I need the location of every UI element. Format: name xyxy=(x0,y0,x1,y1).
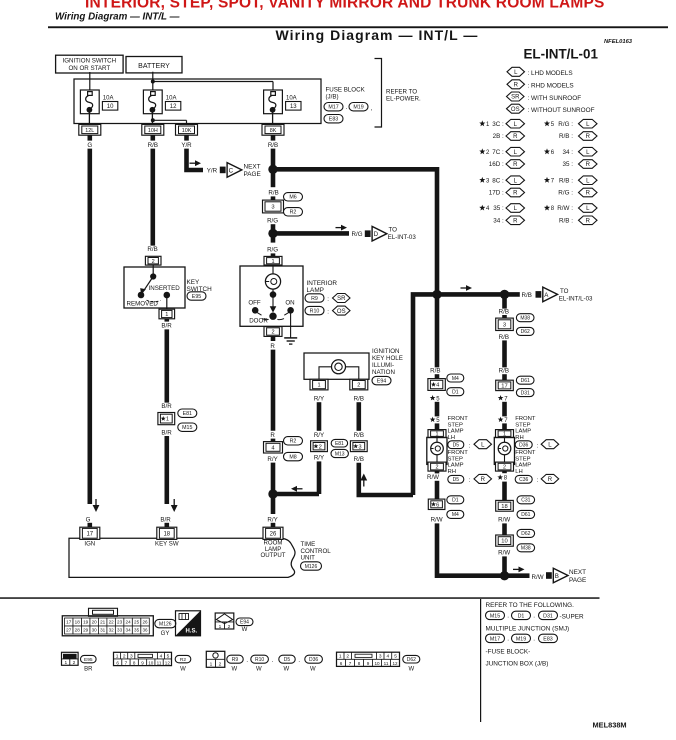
connector ref M8 xyxy=(284,452,303,460)
connector ref R10 with OS xyxy=(305,306,324,314)
wire fuse 10 to 12L xyxy=(88,110,90,125)
junction battery branch xyxy=(151,80,155,84)
svg-text:8: 8 xyxy=(358,661,361,666)
svg-text:2: 2 xyxy=(73,660,76,666)
front step lamp LH box xyxy=(427,437,447,464)
svg-text:10: 10 xyxy=(107,104,114,110)
svg-text:W: W xyxy=(242,626,248,633)
svg-text:R/Y: R/Y xyxy=(267,517,277,524)
svg-text:3: 3 xyxy=(379,654,382,660)
interior lamp box xyxy=(240,266,303,326)
connector face R9 xyxy=(206,651,225,667)
svg-text:D: D xyxy=(374,231,379,238)
svg-text:NFEL0163: NFEL0163 xyxy=(604,39,633,45)
fuse 10A no.10 xyxy=(80,90,99,114)
svg-text:30: 30 xyxy=(92,628,98,633)
wire lamp to switch common xyxy=(272,289,274,293)
svg-text:10A: 10A xyxy=(286,95,297,101)
connector star6 xyxy=(428,499,445,509)
svg-text:2: 2 xyxy=(357,383,360,389)
connector 10 (D62/M38) xyxy=(496,535,514,546)
connector ref R9 with SR xyxy=(305,294,324,302)
junction R/Y xyxy=(268,489,277,498)
wire R/G into interior lamp xyxy=(271,253,276,257)
svg-text:6: 6 xyxy=(436,502,439,508)
svg-text:NEXT: NEXT xyxy=(569,569,586,576)
svg-text:1: 1 xyxy=(64,660,67,666)
connector ref M126 xyxy=(301,562,322,570)
svg-text:UNIT: UNIT xyxy=(301,554,316,561)
svg-text:B/R: B/R xyxy=(161,429,172,436)
M126 cavity 22 xyxy=(107,618,115,626)
svg-text:W: W xyxy=(284,666,290,672)
svg-text:STEP: STEP xyxy=(448,456,463,462)
wire R/W run to star6 xyxy=(435,481,440,500)
svg-text:35: 35 xyxy=(134,628,140,633)
fuse block outline xyxy=(74,79,321,124)
svg-text:18: 18 xyxy=(501,504,507,510)
svg-text:R/Y: R/Y xyxy=(267,456,277,463)
svg-text:R/Y: R/Y xyxy=(314,432,324,439)
svg-text:D1: D1 xyxy=(518,613,525,619)
svg-text:.: . xyxy=(507,636,509,643)
svg-text:7C :: 7C : xyxy=(492,149,504,156)
svg-text:W: W xyxy=(256,666,262,672)
svg-text:31: 31 xyxy=(100,628,106,633)
svg-text:W: W xyxy=(408,666,414,672)
wire stub below step lamp LH xyxy=(435,471,440,473)
M126 cavity 19 xyxy=(81,618,89,626)
svg-text:1: 1 xyxy=(339,654,342,660)
svg-text:R/B :: R/B : xyxy=(559,177,573,184)
svg-text:JUNCTION BOX (J/B): JUNCTION BOX (J/B) xyxy=(486,661,549,668)
wire G stub into pin 17 xyxy=(88,523,93,527)
wire stub into connector 17 xyxy=(502,374,507,381)
svg-text:SR: SR xyxy=(511,95,520,101)
svg-text:TO: TO xyxy=(560,288,569,295)
svg-text:FUSE BLOCK: FUSE BLOCK xyxy=(326,87,366,94)
connector 3 (M38/D62) xyxy=(496,318,514,330)
svg-text:R/B: R/B xyxy=(268,190,278,197)
svg-text:D36: D36 xyxy=(519,443,528,449)
wire stub below 10K xyxy=(184,135,189,140)
svg-text:R: R xyxy=(513,218,518,224)
svg-text:R: R xyxy=(513,191,518,197)
legend with sunroof xyxy=(507,92,525,101)
connector ref M126 oval xyxy=(155,619,176,627)
key hole illumination pin 1 xyxy=(310,379,328,390)
junction right rail xyxy=(500,290,509,299)
svg-text:R/B: R/B xyxy=(147,246,157,253)
legend row star7 R/B/R/G xyxy=(544,177,550,183)
fuse 10A no.12 xyxy=(143,90,162,114)
wire B/R run to star1 xyxy=(165,329,170,402)
J/B terminal 10H xyxy=(142,124,164,135)
svg-text:LAMP: LAMP xyxy=(515,429,531,435)
svg-text:16D :: 16D : xyxy=(489,161,504,168)
wire R/Y run to junction xyxy=(271,463,276,514)
connector ref D31 xyxy=(516,389,534,397)
key hole illumination box xyxy=(304,353,369,379)
svg-text:STEP: STEP xyxy=(515,456,530,462)
harness side view logo H.S. xyxy=(176,611,201,636)
svg-text:OFF: OFF xyxy=(248,300,261,307)
svg-text:RH: RH xyxy=(448,469,457,475)
svg-text:R: R xyxy=(514,82,519,88)
svg-text:M38: M38 xyxy=(521,546,531,552)
footnote J/B ovals xyxy=(486,634,505,642)
M126 cavity 17 xyxy=(65,618,73,626)
svg-text:10: 10 xyxy=(148,660,154,665)
M126 cavity 18 xyxy=(73,618,81,626)
wire run to connector 10 xyxy=(502,523,507,535)
svg-text:R/B: R/B xyxy=(268,142,278,149)
svg-text:C36: C36 xyxy=(519,477,528,483)
svg-text:H.S.: H.S. xyxy=(185,628,197,634)
key switch pin 2 xyxy=(145,256,161,265)
legend without sunroof xyxy=(507,104,525,113)
switch travel dashes xyxy=(262,319,269,320)
wire R/B main feed from 8K xyxy=(271,149,276,188)
connector 3 (M6/R2) xyxy=(263,200,284,213)
svg-text:OS: OS xyxy=(337,309,346,315)
wire stub below 12L xyxy=(88,135,93,140)
connector ref D5 oval xyxy=(279,655,295,663)
interior lamp switch common xyxy=(270,291,277,298)
connector star2 xyxy=(311,441,328,452)
svg-text:2: 2 xyxy=(503,465,506,471)
arrow right on rail xyxy=(461,287,468,289)
TCU pin 26 xyxy=(263,527,283,539)
svg-text:INTERIOR, STEP, SPOT, VANITY M: INTERIOR, STEP, SPOT, VANITY MIRROR AND … xyxy=(85,0,605,11)
svg-text:B/R: B/R xyxy=(161,323,172,330)
wire pin1 to bulb xyxy=(504,437,506,442)
svg-text:2: 2 xyxy=(319,444,322,450)
M126 cavity 35 xyxy=(132,626,140,634)
connector ref M4 xyxy=(447,510,464,518)
svg-text:32: 32 xyxy=(109,628,115,633)
svg-text:24: 24 xyxy=(126,620,132,625)
connector ref M38 xyxy=(516,314,534,322)
connector ref M13 xyxy=(331,449,348,457)
svg-text:R/G: R/G xyxy=(352,231,363,238)
wire R/G run xyxy=(271,224,276,242)
svg-text:.: . xyxy=(533,636,535,643)
key switch wiper arm xyxy=(144,277,153,291)
svg-text:,: , xyxy=(371,105,373,112)
svg-text::: : xyxy=(327,296,329,303)
ON contact xyxy=(287,307,294,314)
wire between star5 labels xyxy=(435,402,440,417)
svg-text:3: 3 xyxy=(130,654,133,660)
svg-text:R: R xyxy=(548,477,553,483)
connector ref D36 oval xyxy=(305,655,323,663)
footnote divider xyxy=(480,599,482,722)
svg-text:7: 7 xyxy=(349,661,352,666)
svg-text:8: 8 xyxy=(133,660,136,665)
label star5 upper xyxy=(430,395,436,400)
wire B/R stub into pin 18 xyxy=(165,523,170,527)
svg-text:M4: M4 xyxy=(452,376,459,382)
svg-text:25: 25 xyxy=(134,620,140,625)
wire G main run xyxy=(88,149,93,504)
wire R/Y run xyxy=(317,402,322,431)
connector ref E83 xyxy=(324,115,343,123)
svg-text:26: 26 xyxy=(142,620,148,625)
svg-text:M126: M126 xyxy=(305,564,318,570)
wire bulb to pin2 xyxy=(436,455,438,463)
wire battery branch to fuse 13 xyxy=(153,81,273,83)
svg-text:29: 29 xyxy=(83,628,89,633)
connector ref D5 with R xyxy=(448,475,464,483)
svg-text:M17: M17 xyxy=(490,636,500,642)
svg-text:R/B :: R/B : xyxy=(559,133,573,140)
legend row star6 34/35 xyxy=(544,148,550,154)
wire key switch pin2 to contact xyxy=(152,265,154,276)
M126 cavity 20 xyxy=(90,618,98,626)
key hole illumination pin 2 xyxy=(350,379,368,390)
refer to EL-POWER bracket xyxy=(375,59,382,128)
legend row star8 R/W/R/B xyxy=(544,205,550,211)
wire stub below 8K xyxy=(271,135,276,140)
svg-text:Wiring Diagram — INT/L —: Wiring Diagram — INT/L — xyxy=(55,11,180,22)
svg-text:R/B: R/B xyxy=(148,142,158,149)
svg-text:R/Y: R/Y xyxy=(314,395,324,402)
page connector A to EL-INT/L-03 xyxy=(536,291,542,298)
arrow down on B/R wire xyxy=(173,499,175,506)
svg-text:7: 7 xyxy=(125,660,128,665)
svg-text:1: 1 xyxy=(166,417,169,423)
svg-text:9: 9 xyxy=(367,661,370,666)
connector face M126 latch tab xyxy=(89,608,118,616)
wire R/B run xyxy=(502,340,507,367)
svg-text:E94: E94 xyxy=(240,620,249,626)
connector ref M17 xyxy=(324,103,343,111)
svg-text:R: R xyxy=(586,162,591,168)
svg-text:ILLUMI-: ILLUMI- xyxy=(372,362,394,369)
svg-text:D31: D31 xyxy=(521,390,530,396)
svg-text:11: 11 xyxy=(384,661,389,666)
wire Y/R bend xyxy=(187,149,204,170)
svg-text:SR: SR xyxy=(337,296,346,302)
svg-text:10: 10 xyxy=(501,539,507,545)
wire B/R run to pin 18 xyxy=(165,436,170,504)
legend row star3 8C/17D xyxy=(479,177,485,183)
svg-text:1: 1 xyxy=(116,654,119,660)
svg-text:R: R xyxy=(586,134,591,140)
svg-text:10: 10 xyxy=(374,661,380,666)
arrow right on R/G branch xyxy=(336,227,343,229)
svg-text:6: 6 xyxy=(116,660,119,665)
TCU pin 18 xyxy=(157,527,177,539)
svg-text:REFER TO: REFER TO xyxy=(386,89,417,96)
svg-text:5: 5 xyxy=(167,654,170,660)
svg-text:IGNITION SWITCH: IGNITION SWITCH xyxy=(62,58,116,65)
svg-text:R: R xyxy=(513,162,518,168)
svg-text:NATION: NATION xyxy=(372,369,395,376)
M126 cavity 31 xyxy=(98,626,106,634)
svg-text:E81: E81 xyxy=(183,411,192,417)
svg-text:: WITH SUNROOF: : WITH SUNROOF xyxy=(528,95,582,102)
svg-text:M13: M13 xyxy=(335,451,345,457)
svg-text:3: 3 xyxy=(271,205,274,211)
svg-text:R2: R2 xyxy=(290,439,297,445)
svg-text:LH: LH xyxy=(448,435,456,441)
connector ref D62 xyxy=(516,327,534,335)
connector ref R2 xyxy=(284,208,303,216)
wire R run xyxy=(271,350,276,431)
svg-text:12L: 12L xyxy=(85,128,94,134)
key switch pin 1 xyxy=(159,309,175,319)
svg-text:2: 2 xyxy=(123,654,126,660)
legend LHD models xyxy=(507,67,525,76)
svg-text:R2: R2 xyxy=(180,657,186,663)
connector ref E95 xyxy=(187,292,206,300)
wire R/B from star3 to bypass rail xyxy=(359,463,413,495)
svg-text:: LHD MODELS: : LHD MODELS xyxy=(528,70,573,77)
svg-text:(J/B): (J/B) xyxy=(326,94,339,101)
svg-text:ON: ON xyxy=(285,300,294,307)
svg-text:E83: E83 xyxy=(543,636,552,642)
svg-text:4: 4 xyxy=(386,654,389,660)
svg-text:DOOR: DOOR xyxy=(249,318,268,325)
svg-text:R/B :: R/B : xyxy=(559,218,573,225)
svg-text:REFER TO THE FOLLOWING.: REFER TO THE FOLLOWING. xyxy=(486,602,575,609)
wire battery to fuse 12 xyxy=(152,72,154,92)
svg-text:6: 6 xyxy=(340,661,343,666)
svg-text:E83: E83 xyxy=(329,117,338,123)
connector ref D1 xyxy=(447,496,464,504)
svg-text:2: 2 xyxy=(152,259,155,265)
label star5 lower xyxy=(430,417,436,422)
key switch INSERTED contact xyxy=(164,292,171,299)
svg-text:B/R: B/R xyxy=(161,403,172,410)
svg-text:R/B: R/B xyxy=(354,395,364,402)
connector 17 (D61/D31) xyxy=(496,380,514,390)
svg-text:BATTERY: BATTERY xyxy=(138,63,170,70)
key switch REMOVED contact xyxy=(138,292,145,299)
connector face E95 xyxy=(62,652,79,665)
J/B terminal 8K xyxy=(262,124,284,135)
svg-text:R/B: R/B xyxy=(499,368,509,375)
arrow down on G wire xyxy=(95,499,97,506)
connector ref M6 xyxy=(284,193,303,201)
wire stub into star4 xyxy=(435,374,440,379)
page connector C next page xyxy=(220,167,226,174)
svg-text:W: W xyxy=(310,666,316,672)
svg-text:.: . xyxy=(507,613,509,620)
svg-text:D1: D1 xyxy=(452,498,459,504)
svg-text:FRONT: FRONT xyxy=(515,416,536,422)
wire R/Y stub into pin 26 xyxy=(271,523,276,527)
connector ref D61 xyxy=(516,376,534,384)
svg-text:1: 1 xyxy=(219,624,222,630)
svg-text:R/W: R/W xyxy=(498,517,510,524)
wire fuse 12 to 10H xyxy=(151,110,153,125)
legend row star5 R/G/R/B xyxy=(544,120,550,126)
svg-text:10A: 10A xyxy=(166,95,177,101)
connector ref R2 xyxy=(284,437,303,445)
page connector D to EL-INT-03 xyxy=(365,230,371,237)
label star7 lower xyxy=(498,417,504,422)
svg-text:27: 27 xyxy=(66,628,72,633)
svg-text:2: 2 xyxy=(346,654,349,660)
wire R/B right column stub xyxy=(502,294,507,308)
M126 cavity 24 xyxy=(124,618,132,626)
connector ref R9 oval xyxy=(227,655,243,663)
svg-text:BR: BR xyxy=(84,666,93,672)
svg-text:OS: OS xyxy=(511,107,520,113)
J/B terminal 10K xyxy=(176,124,198,135)
svg-text:R/W: R/W xyxy=(427,474,439,481)
connector ref E95 oval xyxy=(81,655,97,662)
battery source box xyxy=(126,57,182,73)
svg-text:35 :: 35 : xyxy=(493,205,504,212)
M126 cavity 33 xyxy=(115,626,123,634)
svg-text:3: 3 xyxy=(503,322,506,328)
wire R/B to key switch xyxy=(151,149,156,246)
footer rule xyxy=(0,597,600,599)
svg-text:10K: 10K xyxy=(182,128,192,134)
svg-text:21: 21 xyxy=(100,620,106,625)
svg-text:OUTPUT: OUTPUT xyxy=(260,552,285,559)
svg-text:R/B: R/B xyxy=(354,456,364,463)
ignition switch source box xyxy=(56,55,124,73)
svg-text:R/G :: R/G : xyxy=(558,121,573,128)
svg-text:2B :: 2B : xyxy=(493,133,504,140)
M126 cavity 34 xyxy=(124,626,132,634)
svg-text:EL-INT/L-03: EL-INT/L-03 xyxy=(559,296,593,303)
connector face M126 body xyxy=(62,616,153,636)
svg-text:34: 34 xyxy=(126,628,132,633)
TCU pin 17 xyxy=(80,527,100,539)
legend RHD models xyxy=(507,80,525,89)
front step lamp LH pin 2 xyxy=(428,462,446,471)
svg-text:M8: M8 xyxy=(289,455,296,461)
legend row star4 35/34 xyxy=(479,205,485,211)
connector ref D1 xyxy=(447,388,464,396)
arrow up beside R/B wire xyxy=(363,480,365,487)
svg-text:PAGE: PAGE xyxy=(244,171,261,178)
svg-text:R: R xyxy=(586,191,591,197)
svg-text:4: 4 xyxy=(160,654,163,660)
legend row star2 7C/16D xyxy=(479,148,485,154)
connector ref C36 with R xyxy=(515,475,532,483)
svg-text:FRONT: FRONT xyxy=(448,416,469,422)
switch wiper arrow to DOOR xyxy=(272,295,274,307)
svg-text:INTERIOR: INTERIOR xyxy=(307,280,338,287)
svg-text:B: B xyxy=(555,573,559,580)
connector face D62 xyxy=(337,652,400,666)
svg-text:EL-POWER.: EL-POWER. xyxy=(386,96,421,103)
connector ref M19 xyxy=(349,103,368,111)
svg-text:LH: LH xyxy=(515,469,523,475)
svg-text:1: 1 xyxy=(317,383,320,389)
svg-text:R/W: R/W xyxy=(431,517,443,524)
svg-text:RH: RH xyxy=(515,435,524,441)
connector face R2 xyxy=(114,652,172,665)
footnote SMJ ovals xyxy=(486,611,505,619)
svg-text:18: 18 xyxy=(75,620,81,625)
wire pin1 to lamp xyxy=(272,265,274,274)
junction R/B feed xyxy=(268,165,277,174)
bypass rail to top junction xyxy=(413,294,439,495)
svg-text:M126: M126 xyxy=(159,621,172,627)
svg-text:10A: 10A xyxy=(103,95,114,101)
connector 18 (C31/D61) xyxy=(496,500,514,511)
front step lamp LH pin 1 xyxy=(428,430,446,438)
arrow right on bottom rail xyxy=(513,568,520,570)
